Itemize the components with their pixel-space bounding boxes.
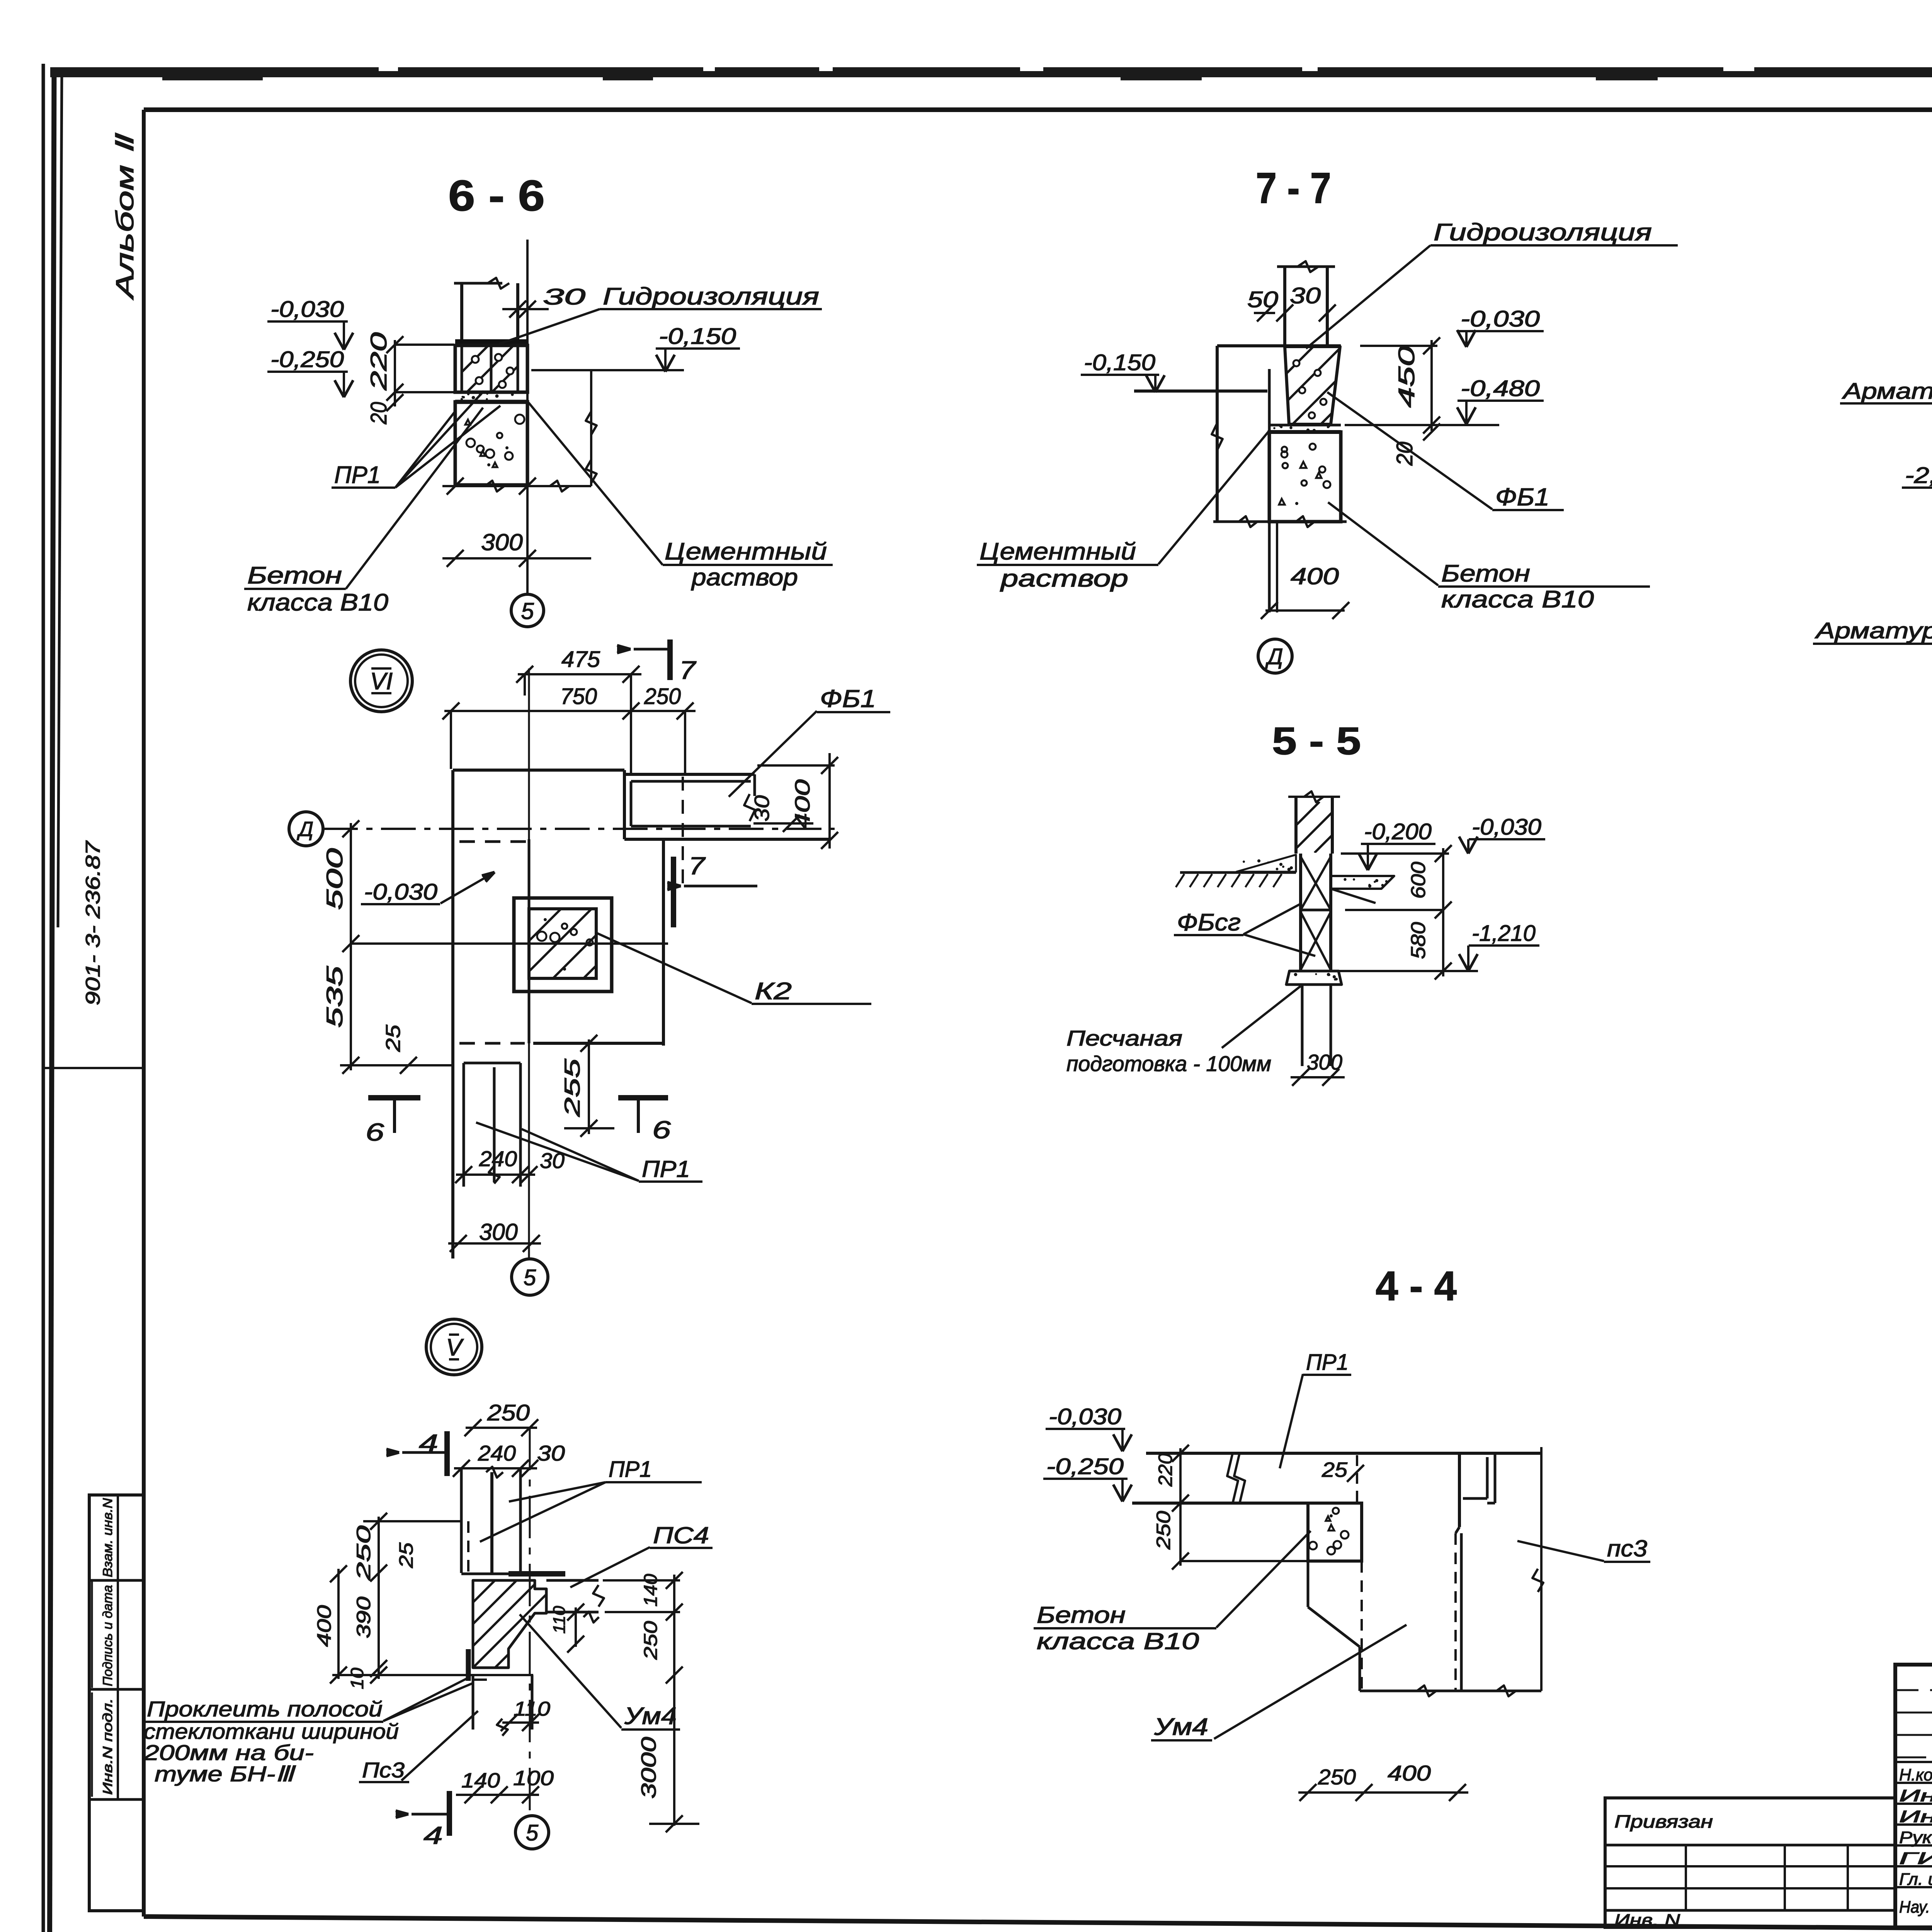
svg-text:Инв.N подл.: Инв.N подл. <box>100 1698 115 1795</box>
svg-text:Арматура колонны: Арматура колонны <box>1842 379 1932 404</box>
svg-text:ПР1: ПР1 <box>642 1156 690 1182</box>
svg-text:Гл. инж.: Гл. инж. <box>1899 1870 1932 1889</box>
svg-text:20: 20 <box>366 402 391 425</box>
svg-text:450: 450 <box>1394 346 1419 408</box>
svg-text:К2: К2 <box>755 978 792 1005</box>
svg-text:220: 220 <box>1155 1453 1176 1487</box>
svg-text:ФБ1: ФБ1 <box>1495 483 1549 511</box>
svg-text:3000: 3000 <box>637 1737 660 1799</box>
svg-text:200мм на би-: 200мм на би- <box>143 1740 314 1765</box>
svg-text:-0,480: -0,480 <box>1461 376 1540 401</box>
svg-text:390: 390 <box>353 1597 374 1638</box>
svg-text:Нау. отд: Нау. отд <box>1899 1898 1932 1917</box>
svg-text:ГИП: ГИП <box>1899 1849 1932 1868</box>
svg-text:250: 250 <box>644 684 681 709</box>
svg-text:подготовка - 100мм: подготовка - 100мм <box>1066 1051 1271 1076</box>
svg-text:Гидроизоляция: Гидроизоляция <box>1434 219 1652 246</box>
svg-text:Инж.: Инж. <box>1899 1807 1932 1826</box>
svg-text:580: 580 <box>1407 922 1430 959</box>
svg-text:Д: Д <box>1265 644 1283 669</box>
svg-text:600: 600 <box>1407 862 1430 899</box>
svg-text:пс3: пс3 <box>1607 1536 1647 1561</box>
svg-text:-0,030: -0,030 <box>364 879 437 905</box>
svg-text:ПР1: ПР1 <box>1306 1350 1349 1375</box>
svg-text:250: 250 <box>641 1621 661 1660</box>
svg-text:Альбом Ⅱ: Альбом Ⅱ <box>111 133 139 301</box>
svg-text:ПР1: ПР1 <box>334 462 381 488</box>
svg-text:Н.контр: Н.контр <box>1899 1765 1932 1784</box>
svg-text:V: V <box>446 1334 464 1361</box>
svg-text:500: 500 <box>322 848 347 910</box>
svg-text:6: 6 <box>652 1116 671 1144</box>
svg-text:7: 7 <box>679 656 697 684</box>
svg-text:240: 240 <box>478 1441 516 1465</box>
svg-text:туме БН-Ⅲ: туме БН-Ⅲ <box>155 1762 296 1786</box>
svg-text:300: 300 <box>481 529 523 555</box>
svg-text:400: 400 <box>313 1605 335 1647</box>
svg-text:5 - 5: 5 - 5 <box>1272 719 1361 763</box>
svg-text:140: 140 <box>641 1574 661 1607</box>
svg-text:30: 30 <box>537 1441 565 1465</box>
svg-text:-0,250: -0,250 <box>1046 1454 1124 1479</box>
svg-text:5: 5 <box>526 1820 539 1845</box>
svg-text:6: 6 <box>366 1118 384 1146</box>
svg-text:-2,600: -2,600 <box>1905 463 1932 488</box>
svg-text:25: 25 <box>382 1024 405 1053</box>
svg-text:7: 7 <box>689 852 706 880</box>
svg-text:250: 250 <box>1153 1511 1174 1550</box>
svg-text:300: 300 <box>479 1219 518 1245</box>
svg-text:ФБсг: ФБсг <box>1177 909 1241 936</box>
svg-text:-0,030: -0,030 <box>1049 1404 1121 1429</box>
svg-text:Бетон: Бетон <box>1441 560 1530 587</box>
svg-text:250: 250 <box>353 1526 374 1581</box>
svg-text:240: 240 <box>479 1146 517 1171</box>
svg-text:Цементный: Цементный <box>665 538 827 565</box>
svg-text:30: 30 <box>750 795 774 821</box>
svg-text:Подпись и дата: Подпись и дата <box>100 1585 115 1686</box>
svg-text:ФБ1: ФБ1 <box>820 685 876 713</box>
svg-text:110: 110 <box>550 1605 569 1634</box>
svg-text:Д: Д <box>297 818 313 841</box>
svg-text:-0,250: -0,250 <box>270 347 344 372</box>
svg-text:Пс3: Пс3 <box>362 1758 405 1782</box>
svg-text:Песчаная: Песчаная <box>1066 1026 1182 1050</box>
svg-text:250: 250 <box>1318 1765 1356 1789</box>
svg-text:Бетон: Бетон <box>247 562 342 589</box>
svg-text:Ум4: Ум4 <box>1154 1714 1208 1740</box>
svg-text:50: 50 <box>1247 287 1278 312</box>
svg-text:10: 10 <box>347 1668 367 1689</box>
svg-text:Гидроизоляция: Гидроизоляция <box>603 283 819 310</box>
svg-text:-0,030: -0,030 <box>1472 815 1541 840</box>
svg-text:4: 4 <box>423 1821 443 1849</box>
svg-text:5: 5 <box>524 1265 536 1290</box>
svg-text:250: 250 <box>487 1400 530 1425</box>
svg-text:750: 750 <box>560 684 597 709</box>
svg-text:110: 110 <box>514 1698 550 1720</box>
svg-text:Цементный: Цементный <box>980 538 1136 565</box>
svg-text:Проклеить полосой: Проклеить полосой <box>147 1697 383 1721</box>
svg-text:255: 255 <box>560 1058 584 1117</box>
svg-text:Инж.: Инж. <box>1899 1786 1932 1805</box>
svg-text:стеклоткани шириной: стеклоткани шириной <box>144 1719 399 1743</box>
svg-text:-0,150: -0,150 <box>659 324 736 349</box>
svg-text:6 - 6: 6 - 6 <box>448 172 545 220</box>
svg-text:ПС4: ПС4 <box>653 1522 709 1548</box>
svg-text:30: 30 <box>543 284 585 310</box>
svg-text:Ум4: Ум4 <box>624 1703 677 1730</box>
svg-text:Рук. бр: Рук. бр <box>1899 1828 1932 1847</box>
svg-text:5: 5 <box>521 598 534 624</box>
svg-text:Бетон: Бетон <box>1037 1602 1126 1628</box>
svg-text:25: 25 <box>1321 1458 1348 1481</box>
svg-text:901- 3- 236.87: 901- 3- 236.87 <box>82 840 104 1005</box>
svg-text:475: 475 <box>561 647 600 672</box>
svg-text:-0,200: -0,200 <box>1364 819 1432 844</box>
svg-text:535: 535 <box>322 966 347 1028</box>
svg-text:7 - 7: 7 - 7 <box>1256 164 1331 212</box>
svg-text:ПР1: ПР1 <box>609 1457 652 1482</box>
svg-text:-0,030: -0,030 <box>270 297 344 322</box>
svg-text:30: 30 <box>1290 283 1321 308</box>
svg-text:-0,150: -0,150 <box>1084 350 1155 375</box>
svg-text:VI: VI <box>370 668 393 695</box>
svg-text:400: 400 <box>1388 1761 1431 1785</box>
svg-text:400: 400 <box>791 779 814 830</box>
svg-text:220: 220 <box>366 332 391 391</box>
svg-text:-0,030: -0,030 <box>1461 306 1540 332</box>
svg-text:раствор: раствор <box>1000 565 1128 592</box>
svg-text:-1,210: -1,210 <box>1472 921 1536 946</box>
svg-text:Привязан: Привязан <box>1614 1811 1713 1832</box>
svg-text:Арматура днища: Арматура днища <box>1815 618 1932 643</box>
svg-text:Взам. инв.N: Взам. инв.N <box>100 1498 115 1577</box>
svg-text:400: 400 <box>1291 563 1339 589</box>
svg-text:класса В10: класса В10 <box>1037 1628 1199 1654</box>
svg-text:4 - 4: 4 - 4 <box>1376 1262 1457 1309</box>
svg-text:класса В10: класса В10 <box>247 589 388 616</box>
svg-text:25: 25 <box>395 1543 417 1568</box>
svg-text:раствор: раствор <box>691 564 798 591</box>
svg-text:класса В10: класса В10 <box>1441 586 1594 613</box>
svg-text:Инв. N: Инв. N <box>1614 1911 1680 1930</box>
svg-text:100: 100 <box>513 1767 554 1790</box>
